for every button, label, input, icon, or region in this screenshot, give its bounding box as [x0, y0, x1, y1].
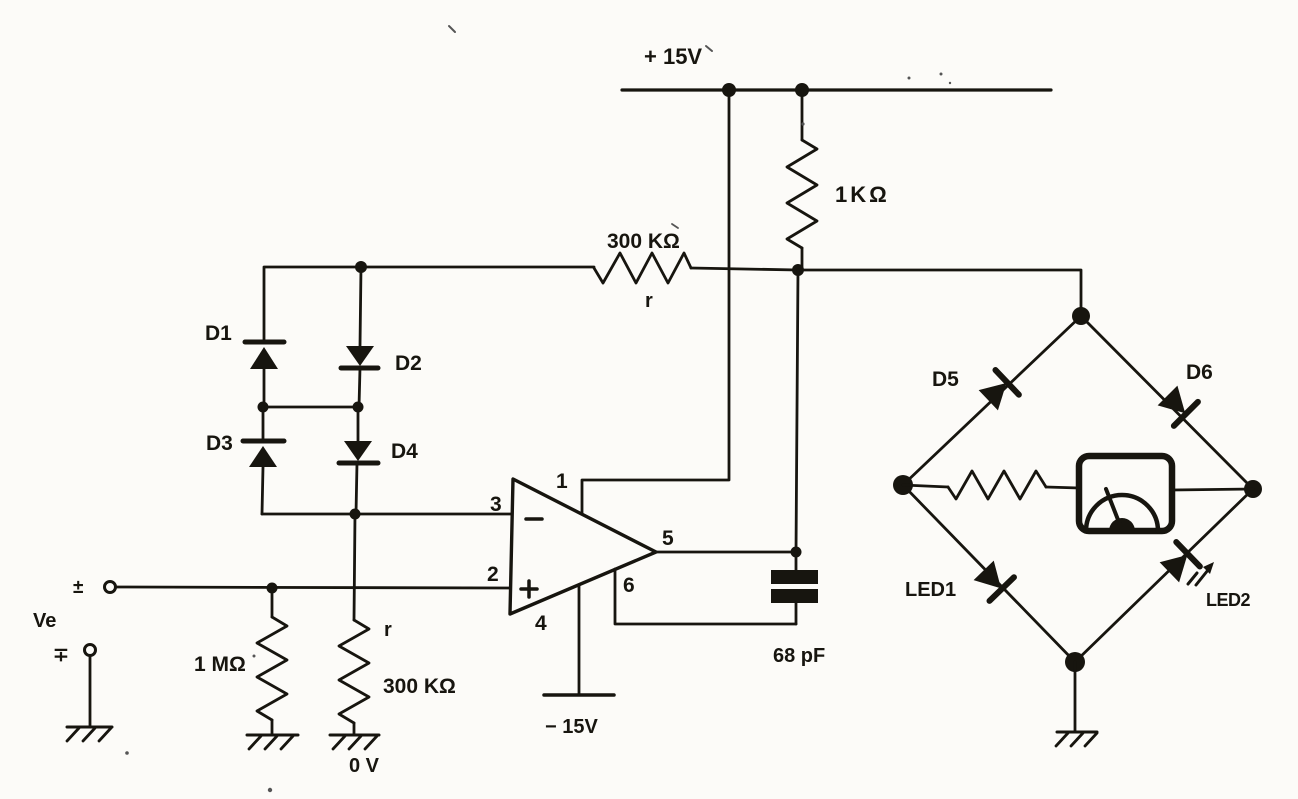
ground under r resistor: [330, 735, 379, 749]
wire feedback node to bridge top: [798, 270, 1081, 316]
svg-text:LED2: LED2: [1206, 590, 1251, 610]
svg-text:r: r: [645, 290, 653, 312]
svg-text:4: 4: [535, 612, 547, 635]
wire terminal to input ground: [89, 656, 92, 726]
junction dot rail / 1K branch: [795, 83, 809, 97]
scan specks: [125, 26, 951, 792]
wire +15V rail to op-amp pin 1: [582, 90, 729, 514]
LED2: [1158, 542, 1200, 585]
wire between mid junctions: [263, 406, 358, 409]
svg-text:r: r: [384, 619, 392, 641]
meter M1: [1079, 456, 1172, 531]
svg-text:1KΩ: 1KΩ: [835, 182, 890, 207]
svg-text:5: 5: [662, 527, 674, 550]
junction dot on pin 3 wire: [350, 509, 361, 520]
svg-text:− 15V: − 15V: [545, 716, 598, 738]
junction dot right column mid: [353, 402, 364, 413]
ground at input: [67, 727, 112, 741]
wire op-amp pin 4 to -15V: [578, 585, 581, 694]
bridge wire top-right edge: [1081, 316, 1253, 489]
junction dot output node: [791, 547, 802, 558]
svg-text:D5: D5: [932, 368, 959, 391]
svg-text:∓: ∓: [53, 645, 69, 666]
diode D1: [245, 342, 284, 407]
svg-text:D3: D3: [206, 432, 233, 455]
svg-text:6: 6: [623, 574, 635, 597]
bridge wire top-left edge: [903, 316, 1081, 485]
bridge top node: [1072, 307, 1090, 325]
diode D3: [243, 407, 284, 514]
ground under bridge: [1056, 732, 1097, 746]
wire feedback node down to output node: [796, 270, 798, 552]
junction dot diode columns top: [355, 261, 367, 273]
input terminal circle: [105, 582, 116, 593]
wire meter to right node: [1172, 489, 1253, 490]
wire 300K to feedback node: [691, 268, 798, 270]
svg-text:68 pF: 68 pF: [773, 645, 825, 667]
+15V rail: [622, 88, 1051, 91]
svg-text:D1: D1: [205, 322, 232, 345]
svg-text:D6: D6: [1186, 361, 1213, 384]
svg-text:2: 2: [487, 563, 499, 586]
wire column down to r resistor: [354, 514, 355, 620]
bridge wire bottom-right edge: [1075, 489, 1253, 662]
svg-text:3: 3: [490, 493, 502, 516]
resistor 300KΩ horizontal: [594, 253, 691, 283]
svg-text:0 V: 0 V: [349, 755, 380, 777]
junction dot left column mid: [258, 402, 269, 413]
ground terminal circle: [85, 645, 96, 656]
diode D4: [339, 407, 378, 514]
svg-text:1: 1: [556, 470, 568, 493]
bridge bottom node: [1065, 652, 1085, 672]
wire input to pin 2: [116, 587, 512, 588]
wire output pin 5: [656, 551, 796, 554]
-15V supply bar: [544, 693, 614, 697]
diode D6: [1155, 383, 1197, 425]
wire bridge bottom to ground: [1074, 662, 1077, 731]
bridge right node: [1244, 480, 1262, 498]
wire pin 6 feedback loop: [615, 569, 796, 624]
resistor r 300KΩ vertical: [339, 620, 369, 735]
junction dot feedback node: [792, 264, 804, 276]
svg-text:LED1: LED1: [905, 579, 956, 601]
wire to inverting input pin 3: [262, 513, 512, 516]
LED2 emission arrows: [1188, 562, 1214, 585]
svg-text:D4: D4: [391, 440, 418, 463]
wire diode block top to 300K resistor: [264, 267, 594, 340]
resistor 1 MΩ: [257, 588, 287, 734]
resistor 1KΩ: [787, 90, 817, 270]
diode D2: [341, 267, 378, 407]
diode D5: [977, 370, 1019, 413]
bridge resistor to meter: [903, 471, 1079, 499]
bridge wire bottom-left edge: [903, 485, 1075, 662]
svg-text:1 MΩ: 1 MΩ: [194, 653, 246, 676]
svg-text:Ve: Ve: [33, 610, 56, 632]
svg-text:300 KΩ: 300 KΩ: [607, 230, 680, 253]
capacitor C1 68 pF: [771, 552, 818, 624]
svg-text:±: ±: [73, 577, 83, 598]
junction dot rail / pin1 branch: [722, 83, 736, 97]
svg-text:D2: D2: [395, 352, 422, 375]
op-amp U1: [510, 479, 656, 614]
svg-text:300 KΩ: 300 KΩ: [383, 675, 456, 698]
bridge left node: [893, 475, 913, 495]
svg-text:+ 15V: + 15V: [644, 44, 702, 69]
LED1: [971, 559, 1014, 601]
ground under 1 MΩ: [247, 735, 298, 749]
junction dot 1M branch: [267, 583, 278, 594]
